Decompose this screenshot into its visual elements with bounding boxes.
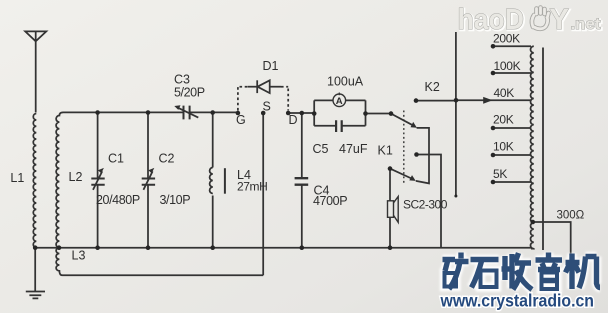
svg-text:C1: C1 <box>108 152 124 166</box>
wire bottom rail <box>35 247 531 249</box>
watermark logo crystalradio (Chinese) <box>443 253 601 290</box>
svg-text:SC2-300: SC2-300 <box>403 198 448 212</box>
wire meter to K1 <box>366 113 392 115</box>
wire K2 common to 40K tap <box>456 99 531 101</box>
arrowheads <box>98 97 493 181</box>
wire top rail <box>63 111 184 113</box>
inductor L4 <box>210 113 225 248</box>
C1 wiper arrow <box>98 168 104 173</box>
svg-text:C3: C3 <box>174 73 190 87</box>
switch K1 <box>390 101 456 248</box>
coil L1 <box>33 114 36 248</box>
svg-text:A: A <box>336 96 343 107</box>
C2 wiper arrow <box>148 168 154 173</box>
ground <box>26 248 45 299</box>
svg-text:C2: C2 <box>159 152 175 166</box>
coil L2 <box>56 112 63 247</box>
coil L3 <box>56 248 62 276</box>
node G <box>236 111 241 116</box>
svg-text:L3: L3 <box>72 249 86 263</box>
wire tap 5K <box>493 181 531 183</box>
svg-text:100K: 100K <box>494 59 521 73</box>
svg-text:.net: .net <box>571 16 601 33</box>
wire top rail right of C3 <box>190 111 237 113</box>
transformer T1 winding <box>530 46 533 248</box>
node S <box>261 111 266 116</box>
svg-text:47uF: 47uF <box>339 142 368 156</box>
svg-text:www.crystalradio.cn: www.crystalradio.cn <box>440 291 594 311</box>
svg-text:D1: D1 <box>263 59 279 73</box>
svg-text:5K: 5K <box>493 167 507 181</box>
svg-text:300Ω: 300Ω <box>557 210 585 222</box>
C3 wiper arrow <box>174 105 180 110</box>
wire tap 10K <box>493 154 531 156</box>
svg-text:haoD: haoD <box>458 4 525 36</box>
capacitor C5 <box>314 120 365 132</box>
switch K2 selector bus <box>455 32 457 196</box>
svg-text:C5: C5 <box>313 142 329 156</box>
svg-text:Y: Y <box>550 4 569 36</box>
wire tap 100K <box>493 72 531 74</box>
svg-text:5/20P: 5/20P <box>174 86 205 100</box>
wire tap 20K <box>493 127 531 129</box>
svg-text:L1: L1 <box>10 171 24 185</box>
svg-text:L2: L2 <box>69 170 83 184</box>
svg-text:4700P: 4700P <box>313 194 347 208</box>
svg-text:K2: K2 <box>425 80 440 94</box>
svg-text:27mH: 27mH <box>237 180 267 194</box>
wire node S to L3 tap <box>262 113 264 275</box>
svg-text:40K: 40K <box>494 86 515 100</box>
svg-text:20/480P: 20/480P <box>96 193 140 207</box>
svg-text:D: D <box>289 113 298 127</box>
K2 wiper arrow 40K <box>483 97 492 104</box>
meter U1 100uA <box>314 93 365 126</box>
diode D1 <box>238 80 288 110</box>
watermark logo haoDIY.net <box>458 4 602 37</box>
svg-text:100uA: 100uA <box>327 75 364 89</box>
node D <box>286 111 291 116</box>
capacitor C4 <box>295 113 309 248</box>
capacitor C3 <box>178 106 199 120</box>
wire L3 bottom tap <box>63 274 264 276</box>
svg-text:K1: K1 <box>378 144 393 158</box>
svg-text:S: S <box>263 100 271 114</box>
svg-text:20K: 20K <box>493 113 514 127</box>
wire 300ohm tap <box>533 222 571 254</box>
svg-text:G: G <box>236 113 246 127</box>
antenna <box>25 31 46 112</box>
capacitor C1 <box>91 113 104 248</box>
capacitor C2 <box>142 113 155 248</box>
speaker SC2-300 <box>388 169 399 248</box>
K1 arm arrow lower <box>409 175 415 181</box>
transformer T1 core <box>542 48 544 251</box>
K1 arm arrow upper <box>411 122 417 128</box>
svg-text:3/10P: 3/10P <box>160 193 191 207</box>
svg-text:10K: 10K <box>493 140 514 154</box>
wire tap 200K <box>493 45 531 47</box>
wire node D to meter <box>288 112 314 114</box>
logo hand icon <box>532 8 549 29</box>
